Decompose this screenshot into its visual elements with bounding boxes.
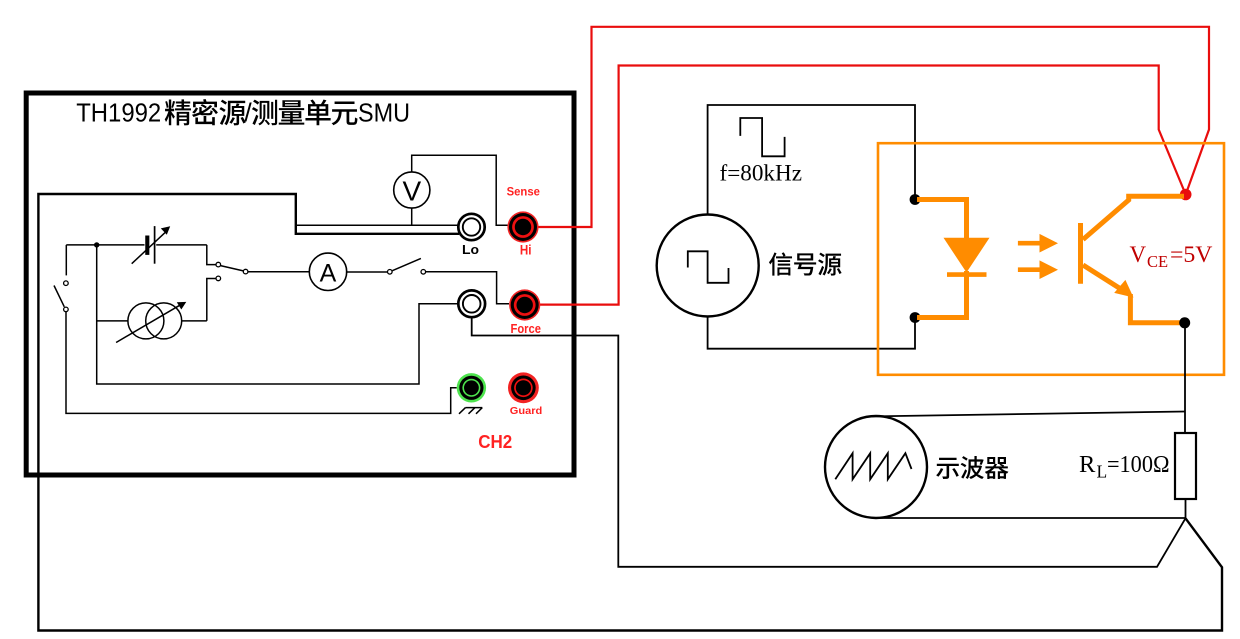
svg-text:V: V <box>402 176 421 207</box>
svg-text:TH1992: TH1992 <box>76 98 161 128</box>
svg-text:=100Ω: =100Ω <box>1107 451 1170 478</box>
svg-text:CH2: CH2 <box>478 432 512 452</box>
svg-text:R: R <box>1079 451 1096 478</box>
svg-text:CE: CE <box>1147 252 1168 271</box>
svg-text:Guard: Guard <box>510 405 543 417</box>
svg-text:f=80kHz: f=80kHz <box>720 161 803 187</box>
svg-text:SMU: SMU <box>358 98 410 128</box>
svg-text:L: L <box>1097 462 1108 482</box>
svg-text:Lo: Lo <box>462 242 479 257</box>
svg-text:/: / <box>244 98 252 128</box>
svg-text:Force: Force <box>511 322 542 336</box>
svg-text:A: A <box>320 260 337 288</box>
svg-text:Sense: Sense <box>507 186 540 198</box>
svg-text:=5V: =5V <box>1170 242 1213 267</box>
svg-text:V: V <box>1130 242 1147 267</box>
svg-text:Hi: Hi <box>520 243 532 258</box>
